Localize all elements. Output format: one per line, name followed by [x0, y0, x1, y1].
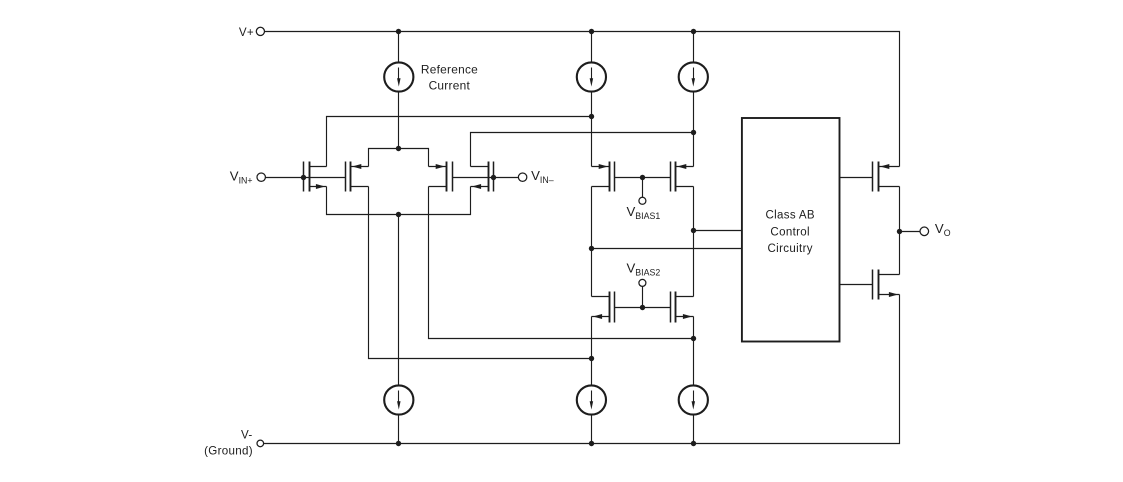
svg-text:V-: V-: [241, 428, 253, 441]
svg-text:Circuitry: Circuitry: [768, 243, 813, 255]
svg-text:Control: Control: [770, 226, 810, 238]
svg-text:Current: Current: [429, 79, 471, 93]
svg-text:Class AB: Class AB: [765, 210, 814, 222]
svg-text:(Ground): (Ground): [204, 444, 253, 457]
svg-text:Reference: Reference: [421, 63, 478, 77]
svg-text:V+: V+: [239, 26, 254, 39]
